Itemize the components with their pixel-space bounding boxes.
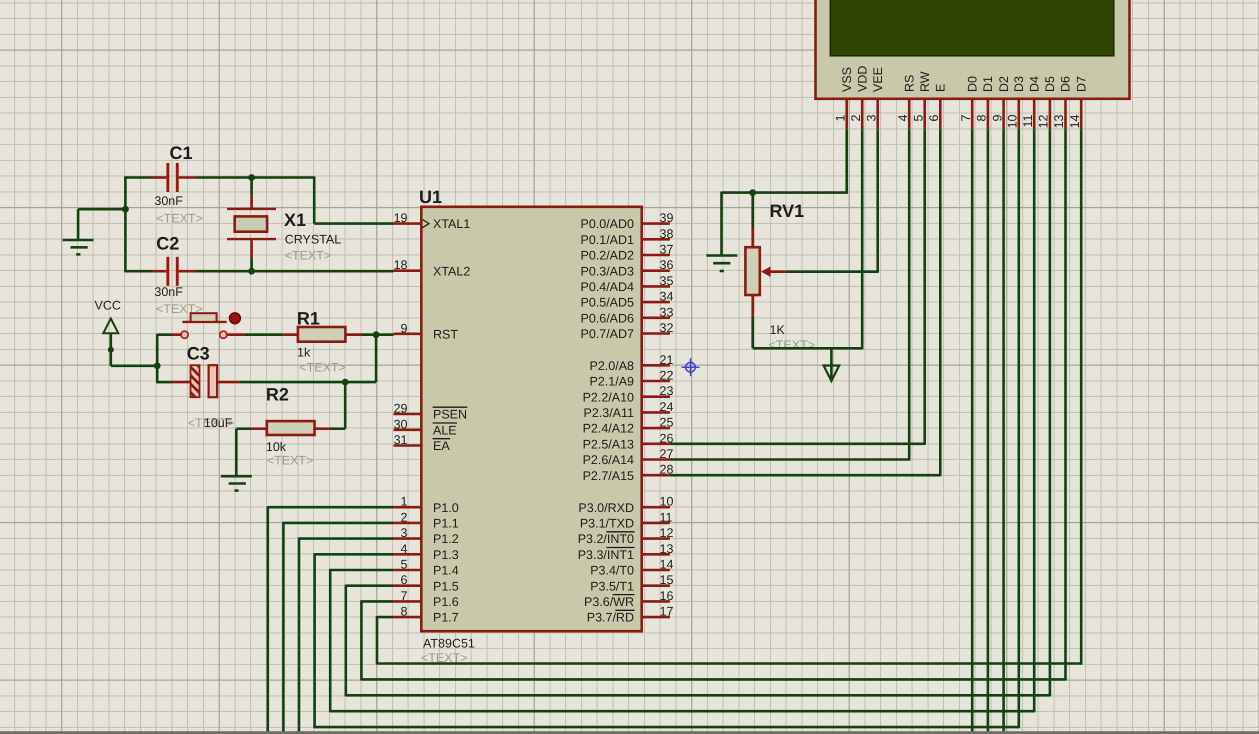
svg-text:P1.3: P1.3 [433,548,459,562]
resistor R2 label [266,385,289,405]
potentiometer RV1 [745,193,759,349]
pushbutton actuator [182,313,226,322]
svg-text:P1.2: P1.2 [433,532,459,546]
svg-text:D7: D7 [1074,76,1088,92]
svg-text:<TEXT>: <TEXT> [267,454,314,468]
svg-text:13: 13 [660,542,674,556]
U1 pin 36 P0.3/AD3 [580,258,673,278]
mcu U1 body [421,207,641,631]
capacitor C3 text overlap [188,416,235,430]
svg-text:12: 12 [660,526,674,540]
ground symbol near C1 [63,240,94,254]
svg-text:P3.0/RXD: P3.0/RXD [578,501,634,515]
svg-text:13: 13 [1052,114,1066,128]
svg-text:C3: C3 [187,344,210,364]
U1 pin 39 P0.0/AD0 [580,211,673,231]
capacitor C1 plates [152,163,196,192]
svg-text:EA: EA [433,439,450,453]
svg-text:<TEXT>: <TEXT> [285,249,332,263]
U1 pin 17 P3.7/RD [587,605,674,625]
wire P1.7 to LCD D7 [377,129,1081,664]
svg-text:P2.4/A12: P2.4/A12 [583,422,634,436]
LCD pin 5 RW [911,71,932,129]
U1 pin 9 RST [394,321,459,341]
U1 pin 10 P3.0/RXD [578,495,673,515]
svg-text:D0: D0 [965,76,979,92]
svg-text:2: 2 [401,510,408,524]
svg-text:RV1: RV1 [770,201,805,221]
LCD pin 13 D6 [1052,76,1073,129]
U1 pin 30 ALE [394,417,458,437]
U1 pin 4 P1.3 [394,542,459,562]
window bottom border [0,731,1259,734]
wire P1.1 to LCD D1 [283,129,988,734]
wire P1.5 to LCD D5 [346,129,1050,696]
svg-text:3: 3 [401,526,408,540]
svg-text:AT89C51: AT89C51 [423,637,475,651]
svg-text:P1.6: P1.6 [433,595,459,609]
svg-text:8: 8 [401,605,408,619]
U1 pin 32 P0.7/AD7 [580,321,673,341]
U1 pin 23 P2.2/A10 [583,384,674,404]
U1 pin 21 P2.0/A8 [590,353,674,373]
svg-text:9: 9 [401,321,408,335]
svg-text:34: 34 [660,290,674,304]
svg-text:5: 5 [401,558,408,572]
U1 pin 28 P2.7/A15 [583,463,674,483]
U1 pin 8 P1.7 [394,605,459,625]
svg-text:ALE: ALE [433,423,457,437]
svg-text:P2.6/A14: P2.6/A14 [583,453,634,467]
svg-text:37: 37 [660,243,674,257]
resistor R1 label [297,309,320,329]
LCD module body [816,0,1130,99]
LCD pin 1 VSS [833,67,854,129]
resistor R1 [227,327,393,342]
svg-text:P0.6/AD6: P0.6/AD6 [580,311,634,325]
resistor R2 value [266,440,313,468]
wire C1 row [125,176,314,179]
svg-text:8: 8 [975,114,989,121]
svg-text:P3.6/WR: P3.6/WR [584,595,634,609]
svg-text:4: 4 [896,114,910,121]
svg-text:10k: 10k [266,440,287,454]
svg-text:7: 7 [959,114,973,121]
svg-text:C1: C1 [170,143,193,163]
svg-text:6: 6 [401,573,408,587]
svg-text:P1.0: P1.0 [433,501,459,515]
svg-text:PSEN: PSEN [433,408,467,422]
svg-text:6: 6 [927,114,941,121]
svg-text:2: 2 [849,114,863,121]
svg-text:R1: R1 [297,309,320,329]
wire C2 row [125,270,393,273]
LCD pin 14 D7 [1068,76,1089,129]
U1 pin 24 P2.3/A11 [583,400,673,420]
capacitor C2 plates [152,257,196,286]
svg-text:11: 11 [660,510,673,524]
svg-text:1: 1 [401,495,408,509]
LCD pin 12 D5 [1037,76,1058,129]
U1 pin 26 P2.5/A13 [583,431,674,451]
svg-text:P2.1/A9: P2.1/A9 [590,375,635,389]
svg-text:<TEXT>: <TEXT> [299,361,346,375]
svg-text:10: 10 [660,495,674,509]
svg-text:1: 1 [833,114,847,121]
U1 pin 18 XTAL2 [394,258,471,278]
U1 pin 14 P3.4/T0 [590,558,673,578]
origin marker crosshair [682,358,700,376]
svg-text:1K: 1K [770,323,786,337]
wire P1.3 to LCD D3 [315,129,1019,728]
potentiometer RV1 wiper arrow [761,267,786,277]
wire VSS rail [722,129,847,194]
svg-text:D6: D6 [1059,76,1073,92]
wire R1 node down to C3 row [375,335,378,382]
wire P1.0 to LCD D0 [268,129,972,734]
potentiometer RV1 label [770,201,805,221]
svg-text:D3: D3 [1012,76,1026,92]
svg-text:P2.2/A10: P2.2/A10 [583,390,634,404]
U1 pin 13 P3.3/INT1 [578,542,674,562]
svg-text:P0.1/AD1: P0.1/AD1 [580,233,634,247]
svg-text:P1.5: P1.5 [433,579,459,593]
wire RV1 bottom rail to VDD [753,129,863,349]
svg-text:30nF: 30nF [154,285,183,299]
svg-text:C2: C2 [156,234,179,254]
U1 pin 7 P1.6 [394,589,459,609]
pushbutton contacts [181,331,227,338]
resistor R2 [236,382,345,476]
ground arrow symbol on VDD rail [824,348,840,381]
svg-text:7: 7 [401,589,408,603]
svg-text:P2.5/A13: P2.5/A13 [583,437,634,451]
LCD pin 2 VDD [849,66,870,130]
svg-text:P2.3/A11: P2.3/A11 [583,406,634,420]
node junction ground branch [122,206,129,213]
svg-text:VDD: VDD [855,66,869,92]
svg-text:P1.1: P1.1 [433,517,459,531]
svg-text:<TEXT>: <TEXT> [156,212,203,226]
svg-text:P0.2/AD2: P0.2/AD2 [580,249,634,263]
U1 pin 12 P3.2/INT0 [578,526,674,546]
wire P2.5 to LCD RW [670,129,925,445]
svg-text:18: 18 [394,258,408,272]
potentiometer RV1 value [769,323,816,352]
svg-text:11: 11 [1021,114,1035,127]
svg-text:P3.4/T0: P3.4/T0 [590,564,634,578]
power VCC symbol [103,319,118,366]
LCD pin 11 D4 [1021,76,1042,129]
pushbutton red indicator [230,313,241,324]
svg-text:P0.4/AD4: P0.4/AD4 [580,280,634,294]
capacitor C3 plates [157,365,376,397]
LCD pin 4 RS [896,75,917,130]
svg-text:15: 15 [660,573,674,587]
svg-text:25: 25 [660,416,674,430]
U1 pin 35 P0.4/AD4 [580,274,673,294]
capacitor C3 label [187,344,210,364]
svg-text:14: 14 [1068,114,1082,128]
U1 pin 31 EA [394,433,451,453]
svg-text:29: 29 [394,402,408,416]
svg-text:9: 9 [990,114,1004,121]
node junction RV1 top [749,189,756,196]
svg-text:30: 30 [394,417,408,431]
U1 pin 6 P1.5 [394,573,459,593]
U1 pin 1 P1.0 [394,495,459,515]
svg-text:P2.7/A15: P2.7/A15 [583,469,634,483]
svg-text:5: 5 [911,114,925,121]
node dot on VCC stem [108,347,114,353]
wire X1 to XTAL1 [314,176,393,223]
U1 pin 22 P2.1/A9 [590,369,674,389]
wire RV1 ground stem [720,192,723,256]
svg-text:35: 35 [660,274,674,288]
U1 pin 5 P1.4 [394,558,459,578]
crystal X1 name [285,233,342,263]
U1 pin 2 P1.1 [394,510,459,530]
svg-text:4: 4 [401,542,408,556]
svg-text:24: 24 [660,400,674,414]
U1 pin 27 P2.6/A14 [583,447,674,467]
capacitor C1 value [154,194,202,226]
svg-text:21: 21 [660,353,674,367]
svg-text:32: 32 [660,321,674,335]
svg-text:RW: RW [918,71,932,92]
LCD screen [830,0,1114,56]
svg-text:VCC: VCC [95,299,121,313]
svg-text:23: 23 [660,384,674,398]
wire P1.4 to LCD D4 [330,129,1034,712]
node junction C3-R2 [342,379,349,386]
svg-text:U1: U1 [419,187,442,207]
wire C1-C2 vertical [124,176,127,272]
svg-text:10uF: 10uF [204,416,233,430]
svg-text:1k: 1k [297,346,311,360]
svg-text:22: 22 [660,369,674,383]
node junction C1-X1 [248,174,255,181]
ground symbol below R2 [221,476,252,490]
svg-text:38: 38 [660,227,674,241]
svg-text:P1.4: P1.4 [433,564,459,578]
svg-text:X1: X1 [284,210,306,230]
crystal X1 [227,195,276,258]
svg-text:CRYSTAL: CRYSTAL [285,233,342,247]
U1 pin 33 P0.6/AD6 [580,305,673,325]
svg-text:P0.0/AD0: P0.0/AD0 [580,217,634,231]
svg-text:3: 3 [864,114,878,121]
svg-text:P3.3/INT1: P3.3/INT1 [578,548,634,562]
U1 pin 29 PSEN [394,402,468,422]
resistor R1 value [297,346,346,375]
U1 pin 25 P2.4/A12 [583,416,674,436]
wire RV1 wiper to VEE [786,129,878,273]
svg-text:D5: D5 [1043,76,1057,92]
svg-text:XTAL1: XTAL1 [433,217,470,231]
svg-text:12: 12 [1037,114,1051,128]
svg-text:P3.2/INT0: P3.2/INT0 [578,532,634,546]
wire VCC to reset node [111,334,157,383]
wire VCC node to button [157,333,180,336]
svg-text:<TEXT>: <TEXT> [769,338,816,352]
node junction VCC reset [154,362,161,369]
svg-text:P3.5/T1: P3.5/T1 [590,579,634,593]
svg-text:D2: D2 [997,76,1011,92]
svg-text:P3.7/RD: P3.7/RD [587,611,634,625]
svg-text:16: 16 [660,589,674,603]
crystal X1 pins wire [250,178,253,272]
LCD pin 7 D0 [959,76,980,129]
svg-text:RST: RST [433,327,458,341]
svg-text:36: 36 [660,258,674,272]
svg-text:19: 19 [394,211,408,225]
U1 pin 34 P0.5/AD5 [580,290,673,310]
node junction C2-X1 [248,268,255,275]
U1 pin 37 P0.2/AD2 [580,243,673,263]
svg-text:P2.0/A8: P2.0/A8 [590,359,635,373]
svg-text:14: 14 [660,558,674,572]
wire P1.6 to LCD D6 [361,129,1065,680]
LCD pin 6 E [927,84,948,130]
svg-text:10: 10 [1006,114,1020,128]
ground symbol near RV1 [706,256,737,272]
wire P2.6 to LCD RS [670,129,909,460]
svg-text:D1: D1 [981,76,995,92]
svg-text:33: 33 [660,305,674,319]
crystal X1 label [284,210,306,230]
svg-text:XTAL2: XTAL2 [433,264,470,278]
U1 pin 19 XTAL1 [394,211,471,231]
svg-text:VSS: VSS [840,67,854,92]
power VCC label [95,299,121,313]
capacitor C1 label [170,143,193,163]
mcu U1 part number label [421,637,475,666]
svg-text:P0.7/AD7: P0.7/AD7 [580,327,634,341]
svg-text:39: 39 [660,211,674,225]
svg-text:RS: RS [902,75,916,92]
svg-text:R2: R2 [266,385,289,405]
U1 pin 15 P3.5/T1 [590,573,673,593]
svg-text:P1.7: P1.7 [433,611,459,625]
svg-text:P0.3/AD3: P0.3/AD3 [580,264,634,278]
U1 pin 3 P1.2 [394,526,459,546]
svg-text:VEE: VEE [871,67,885,92]
svg-text:31: 31 [394,433,408,447]
wire P1.2 to LCD D2 [299,129,1004,734]
capacitor C2 value [154,285,202,316]
svg-text:E: E [934,84,948,92]
mcu U1 refdes label [419,187,442,207]
wire P2.7 to LCD E [670,129,940,476]
U1 pin 38 P0.1/AD1 [580,227,673,247]
wire ground branch [78,209,125,240]
svg-text:30nF: 30nF [154,194,183,208]
capacitor C2 label [156,234,179,254]
LCD pin 9 D2 [990,76,1011,129]
node junction R1 right [373,331,380,338]
LCD pin 10 D3 [1006,76,1027,129]
LCD pin 3 VEE [864,67,885,129]
U1 pin 11 P3.1/TXD [580,510,673,530]
svg-text:17: 17 [660,605,674,619]
LCD pin 8 D1 [975,76,996,129]
svg-text:P3.1/TXD: P3.1/TXD [580,517,634,531]
svg-text:D4: D4 [1027,76,1041,92]
svg-text:P0.5/AD5: P0.5/AD5 [580,296,634,310]
U1 pin 16 P3.6/WR [584,589,673,609]
